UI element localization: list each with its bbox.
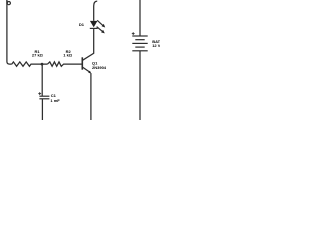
svg-text:12 V: 12 V (152, 43, 160, 48)
svg-text:D1: D1 (79, 22, 85, 27)
svg-text:1 mF: 1 mF (50, 98, 60, 103)
svg-text:2N3904: 2N3904 (92, 65, 107, 70)
svg-text:27 kΩ: 27 kΩ (32, 53, 44, 58)
svg-text:1 kΩ: 1 kΩ (63, 53, 73, 58)
svg-text:C1: C1 (51, 93, 57, 98)
